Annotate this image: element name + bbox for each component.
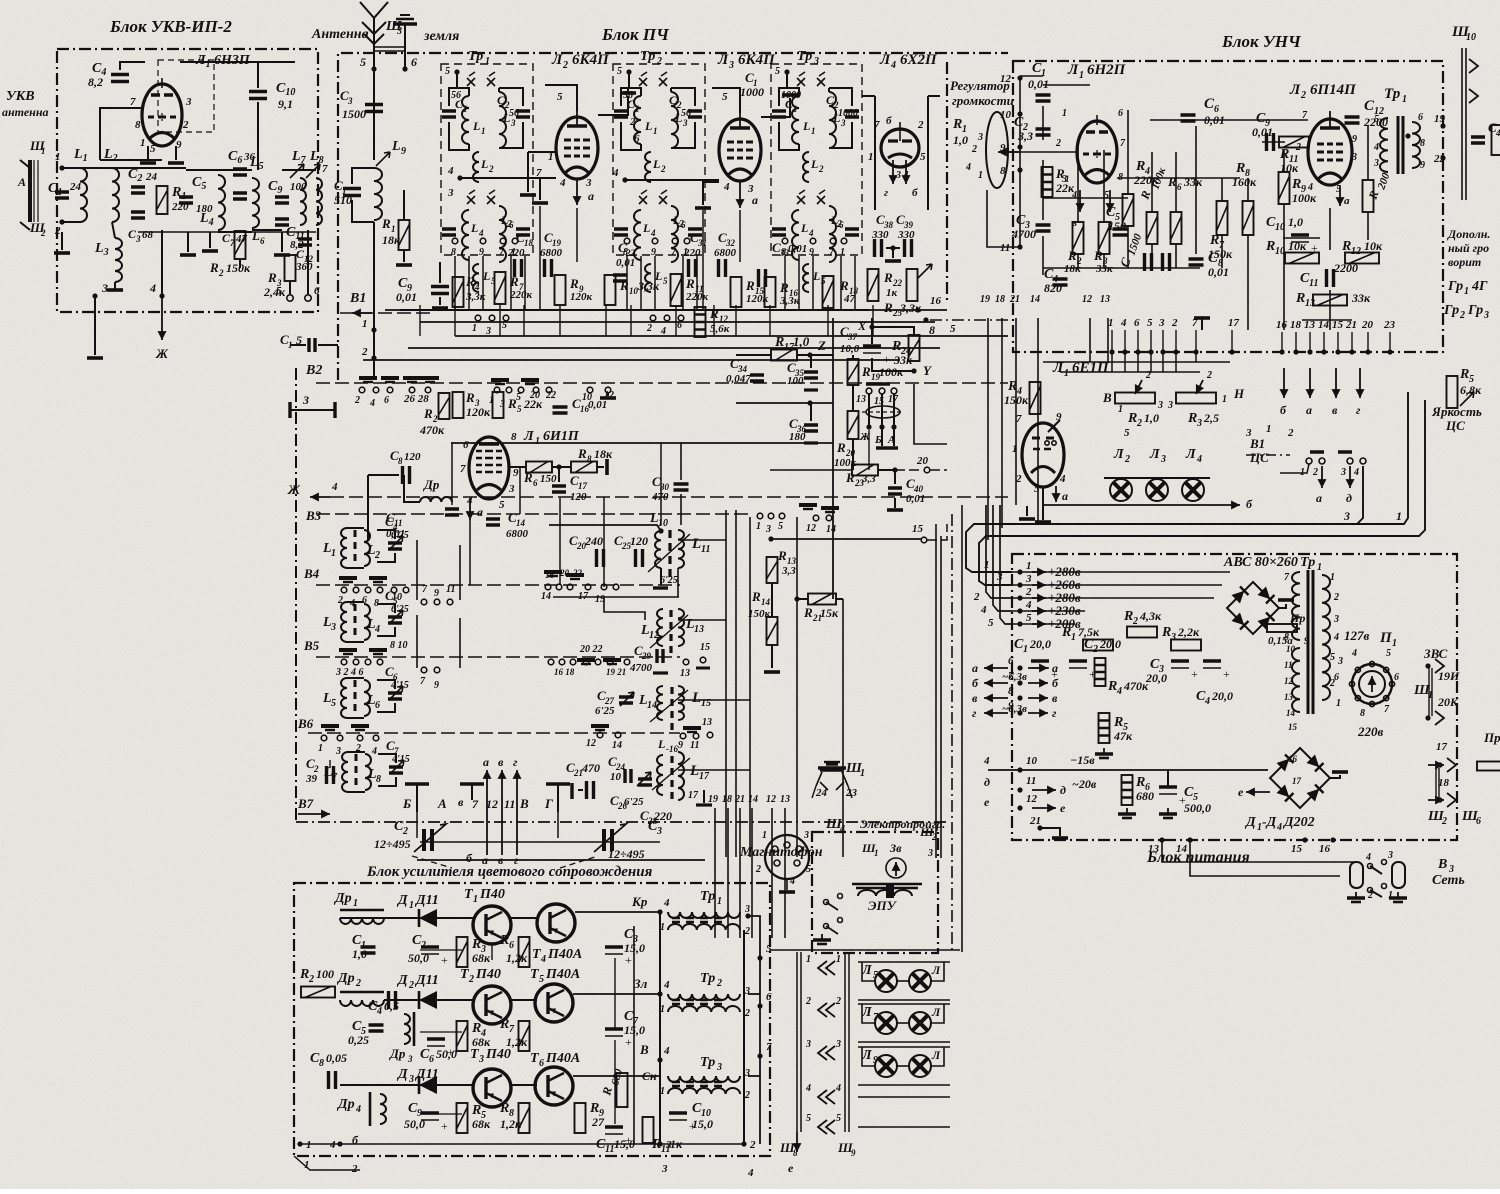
svg-text:4: 4 bbox=[376, 1006, 382, 1017]
B4 mid contacts bbox=[544, 570, 562, 574]
heater rails а б в г bbox=[984, 667, 1008, 669]
svg-text:3: 3 bbox=[977, 132, 983, 143]
osc coil L1 bbox=[341, 528, 347, 568]
capacitor C11 0,01 bbox=[445, 509, 459, 515]
capacitor C3 68 bbox=[131, 212, 145, 218]
svg-text:12÷495: 12÷495 bbox=[608, 847, 645, 861]
svg-text:д: д bbox=[1346, 491, 1352, 505]
svg-text:8: 8 bbox=[511, 431, 517, 443]
svg-text:R: R bbox=[1127, 411, 1137, 426]
svg-text:37: 37 bbox=[847, 332, 858, 342]
svg-text:14: 14 bbox=[1318, 319, 1330, 331]
power rect bbox=[1012, 554, 1457, 840]
svg-text:6: 6 bbox=[1008, 655, 1014, 667]
Тр3 trim marks lower bbox=[797, 190, 805, 204]
svg-text:в: в bbox=[972, 691, 978, 705]
svg-text:3 4: 3 4 bbox=[895, 170, 909, 181]
svg-text:г: г bbox=[514, 853, 519, 867]
svg-text:1: 1 bbox=[463, 104, 468, 114]
resistor R8 18к bbox=[571, 462, 597, 473]
capacitor C4 right bbox=[1471, 137, 1485, 143]
svg-text:150к: 150к bbox=[1208, 247, 1233, 261]
svg-text:0,01: 0,01 bbox=[788, 243, 807, 255]
svg-text:3: 3 bbox=[1373, 158, 1379, 169]
svg-text:В1: В1 bbox=[349, 291, 366, 306]
svg-text:R: R bbox=[1187, 411, 1197, 426]
svg-text:а: а bbox=[482, 853, 488, 867]
svg-text:13: 13 bbox=[1148, 843, 1160, 855]
capacitor C8 0,01 bbox=[1189, 259, 1204, 265]
pin continuation wires into 6Е1П bus bbox=[1111, 352, 1113, 372]
capacitor C1 510 bbox=[343, 189, 361, 196]
svg-text:R: R bbox=[1113, 715, 1123, 730]
svg-text:6: 6 bbox=[1118, 108, 1123, 119]
svg-text:3: 3 bbox=[747, 183, 754, 195]
capacitor C6 36 bbox=[233, 169, 247, 175]
svg-text:12: 12 bbox=[1082, 294, 1092, 305]
svg-text:антенна: антенна bbox=[2, 105, 49, 119]
capacitor C6 0,01 bbox=[1181, 115, 1196, 121]
svg-text:6: 6 bbox=[384, 395, 389, 406]
svg-text:Зл: Зл bbox=[633, 976, 648, 991]
svg-text:4: 4 bbox=[478, 228, 484, 238]
svg-text:2: 2 bbox=[1287, 427, 1294, 439]
transistor Т1 П40 bbox=[473, 906, 511, 944]
svg-text:3: 3 bbox=[1160, 454, 1166, 465]
svg-text:27: 27 bbox=[591, 1115, 605, 1129]
svg-text:12: 12 bbox=[1026, 793, 1038, 805]
svg-text:в: в bbox=[458, 795, 464, 809]
svg-text:5: 5 bbox=[1330, 652, 1335, 663]
svg-text:5: 5 bbox=[1124, 427, 1130, 439]
svg-text:68к: 68к bbox=[472, 951, 491, 965]
rail Ж bbox=[310, 496, 330, 498]
rail approach wire 1 bbox=[1017, 582, 1022, 587]
svg-text:0,05: 0,05 bbox=[326, 1051, 347, 1065]
wire grid left bbox=[100, 108, 142, 160]
transformer core bars Тр3 bbox=[672, 1082, 722, 1086]
svg-text:11: 11 bbox=[504, 797, 515, 811]
svg-text:2: 2 bbox=[818, 164, 824, 174]
svg-text:Тр: Тр bbox=[1300, 555, 1315, 570]
svg-text:820: 820 bbox=[1044, 281, 1062, 295]
wire top bus to node 8 bbox=[923, 317, 928, 322]
svg-text:2: 2 bbox=[374, 550, 380, 561]
svg-text:R: R bbox=[577, 446, 587, 461]
svg-text:2,5: 2,5 bbox=[1203, 411, 1219, 425]
svg-text:R: R bbox=[774, 335, 784, 350]
svg-text:б: б bbox=[972, 676, 979, 690]
svg-text:6: 6 bbox=[260, 236, 265, 246]
svg-text:13: 13 bbox=[694, 624, 704, 635]
svg-text:100к: 100к bbox=[879, 365, 904, 379]
capacitor C33 0,01 bbox=[759, 269, 766, 287]
svg-text:R: R bbox=[499, 1101, 509, 1116]
svg-text:В6: В6 bbox=[297, 716, 314, 731]
Тр3 coil L4 lower bbox=[792, 210, 799, 260]
wire Y down bbox=[914, 384, 947, 444]
svg-text:17: 17 bbox=[1436, 741, 1448, 753]
svg-text:15к: 15к bbox=[820, 606, 839, 620]
resistor R9 27 bbox=[575, 1103, 586, 1133]
antenna bbox=[373, 18, 375, 130]
svg-text:1: 1 bbox=[860, 768, 865, 779]
wire staircase under L10 bbox=[553, 596, 679, 598]
svg-text:Z: Z bbox=[817, 338, 826, 353]
wire 15 line bbox=[768, 536, 773, 541]
svg-text:земля: земля bbox=[423, 29, 459, 44]
coil L13 bbox=[678, 609, 684, 646]
svg-text:R: R bbox=[803, 605, 813, 620]
drop wires 12 13 bbox=[1089, 318, 1091, 362]
trim arrow L11 bbox=[648, 534, 690, 572]
resistor R18 47 bbox=[823, 276, 834, 308]
fuse holders bbox=[1350, 862, 1363, 888]
svg-text:Д11: Д11 bbox=[414, 893, 439, 908]
svg-text:12: 12 bbox=[1000, 73, 1012, 85]
capacitor C17 120 bbox=[552, 486, 566, 492]
svg-text:Сеть: Сеть bbox=[1432, 873, 1465, 888]
svg-text:б: б bbox=[466, 851, 473, 865]
resistor R21 15к bbox=[808, 594, 836, 605]
pot R3 2,5 bbox=[1176, 393, 1216, 404]
svg-text:1: 1 bbox=[1266, 423, 1272, 435]
svg-text:Блок УНЧ: Блок УНЧ bbox=[1221, 32, 1302, 51]
svg-text:0,5: 0,5 bbox=[384, 999, 399, 1013]
svg-text:20 22: 20 22 bbox=[579, 644, 603, 655]
block UKV border rect bbox=[57, 49, 318, 312]
svg-text:1к: 1к bbox=[886, 287, 898, 299]
svg-text:4: 4 bbox=[612, 167, 619, 179]
svg-text:180: 180 bbox=[789, 431, 806, 443]
svg-text:5: 5 bbox=[360, 55, 366, 69]
svg-text:20,0: 20,0 bbox=[1029, 637, 1051, 651]
svg-text:4: 4 bbox=[747, 1167, 754, 1179]
transistor Т3 П40 bbox=[473, 1069, 511, 1107]
svg-text:Тр: Тр bbox=[700, 971, 715, 986]
node 6 bbox=[305, 295, 311, 301]
capacitor C8 120 bbox=[403, 466, 410, 484]
capacitor C1 24 bbox=[55, 192, 69, 198]
svg-text:19 21: 19 21 bbox=[606, 667, 626, 677]
resistor R7 1,2к bbox=[519, 1021, 530, 1051]
svg-text:R: R bbox=[1459, 367, 1469, 382]
svg-text:12: 12 bbox=[766, 794, 776, 805]
svg-text:9: 9 bbox=[1352, 134, 1357, 145]
resistor R22 1к bbox=[868, 269, 879, 301]
svg-text:Пр: Пр bbox=[1483, 730, 1500, 745]
Тр1 secondary bbox=[1322, 575, 1330, 700]
wire R17 right bbox=[797, 354, 833, 356]
svg-text:1,0: 1,0 bbox=[953, 133, 968, 147]
svg-text:15,0: 15,0 bbox=[692, 1117, 713, 1131]
svg-text:4: 4 bbox=[559, 177, 566, 189]
transistor Т4 П40А bbox=[537, 904, 575, 942]
resistor R5 47к bbox=[1099, 713, 1110, 743]
svg-text:Тр: Тр bbox=[700, 1055, 715, 1070]
svg-text:10: 10 bbox=[1026, 755, 1038, 767]
svg-text:4: 4 bbox=[447, 165, 454, 177]
wire cathode down bbox=[1042, 487, 1044, 520]
svg-text:14: 14 bbox=[1286, 708, 1296, 718]
svg-text:4: 4 bbox=[723, 181, 730, 193]
svg-text:5: 5 bbox=[775, 66, 780, 77]
svg-text:7: 7 bbox=[766, 1041, 772, 1053]
resistor R5 100к rotated label bbox=[1147, 212, 1158, 244]
resistor right of Ш10 bbox=[1492, 125, 1500, 155]
selector contacts 10 12 bbox=[587, 387, 593, 393]
svg-text:3: 3 bbox=[1157, 400, 1163, 411]
svg-text:4: 4 bbox=[805, 1083, 811, 1094]
osc coil wires bbox=[347, 601, 364, 603]
svg-text:5: 5 bbox=[766, 943, 772, 955]
svg-text:8: 8 bbox=[1420, 138, 1425, 149]
phono switch contacts bbox=[824, 900, 829, 905]
svg-text:Л: Л bbox=[1185, 447, 1196, 462]
svg-text:2: 2 bbox=[656, 56, 662, 67]
svg-text:Тр: Тр bbox=[797, 49, 812, 64]
Ш8 Ш9 labels bbox=[796, 1132, 798, 1152]
svg-text:12: 12 bbox=[806, 523, 816, 534]
svg-text:13: 13 bbox=[1305, 298, 1315, 309]
svg-text:10: 10 bbox=[1000, 109, 1012, 121]
svg-text:4: 4 bbox=[374, 624, 380, 635]
tube Л3 6К4П bbox=[719, 119, 761, 181]
svg-text:1: 1 bbox=[409, 900, 414, 911]
svg-text:9: 9 bbox=[401, 146, 406, 157]
svg-text:510: 510 bbox=[334, 193, 352, 207]
svg-text:В: В bbox=[519, 796, 529, 811]
svg-text:б: б bbox=[886, 115, 892, 127]
svg-text:2: 2 bbox=[355, 978, 361, 989]
wire R17 left bbox=[736, 354, 771, 356]
svg-text:3,3: 3,3 bbox=[781, 565, 796, 577]
svg-text:П40А: П40А bbox=[545, 967, 580, 982]
IF transformer Тр3 box bbox=[771, 64, 862, 255]
color amp rect bbox=[294, 883, 770, 1156]
svg-text:2: 2 bbox=[973, 591, 980, 603]
svg-text:R: R bbox=[499, 933, 509, 948]
osc coil L8 bbox=[365, 754, 371, 790]
svg-text:5: 5 bbox=[331, 698, 336, 709]
resistor R8 1,2к bbox=[519, 1103, 530, 1133]
Тр2 bottom pin row bbox=[624, 238, 630, 244]
svg-text:220: 220 bbox=[507, 247, 525, 259]
resistor R6 1,2к bbox=[519, 937, 530, 967]
svg-text:120: 120 bbox=[404, 451, 421, 463]
svg-text:Гр: Гр bbox=[1447, 279, 1463, 294]
svg-text:L: L bbox=[391, 139, 401, 154]
svg-text:6И1П: 6И1П bbox=[543, 429, 580, 444]
svg-text:220в: 220в bbox=[1357, 724, 1384, 739]
svg-text:2: 2 bbox=[361, 346, 368, 358]
svg-text:1,2к: 1,2к bbox=[506, 951, 528, 965]
svg-text:0,01: 0,01 bbox=[1208, 265, 1229, 279]
B3 contacts 1 3 5 bbox=[757, 513, 763, 519]
svg-text:Ж: Ж bbox=[155, 346, 169, 361]
resistor R13 33к bbox=[1313, 295, 1347, 306]
resistor R20 100к bbox=[848, 411, 859, 439]
svg-text:2: 2 bbox=[1171, 317, 1178, 329]
resistor R3 68к bbox=[457, 937, 468, 967]
Тр1 primary top bbox=[1292, 572, 1300, 640]
svg-text:3 2 4 6: 3 2 4 6 bbox=[335, 667, 364, 678]
svg-text:6Н2П: 6Н2П bbox=[1087, 62, 1127, 78]
svg-text:50,0: 50,0 bbox=[404, 1117, 425, 1131]
svg-text:1: 1 bbox=[1222, 394, 1227, 405]
svg-text:18: 18 bbox=[995, 294, 1005, 305]
wire contact1 bbox=[1280, 464, 1309, 473]
bus under IF row bbox=[400, 309, 870, 311]
svg-text:1,0: 1,0 bbox=[1144, 411, 1159, 425]
resistor R1 22к bbox=[1042, 167, 1053, 197]
svg-text:15: 15 bbox=[912, 523, 924, 535]
svg-text:11: 11 bbox=[1284, 660, 1293, 670]
svg-text:3: 3 bbox=[1351, 152, 1357, 163]
svg-text:3: 3 bbox=[813, 56, 819, 67]
wire joints from selector bbox=[868, 430, 870, 470]
wire g1 left bbox=[528, 151, 556, 153]
svg-text:2: 2 bbox=[182, 119, 189, 131]
svg-text:В3: В3 bbox=[305, 508, 322, 523]
svg-text:Гр: Гр bbox=[1467, 303, 1483, 318]
svg-text:4: 4 bbox=[1116, 686, 1122, 697]
capacitor C2 3,3 bbox=[1036, 129, 1051, 135]
B6 mid contacts bbox=[591, 724, 609, 728]
svg-text:14: 14 bbox=[516, 518, 526, 528]
node 5 right bbox=[757, 955, 762, 960]
svg-text:2: 2 bbox=[1312, 467, 1318, 478]
wires R3 bbox=[289, 281, 291, 294]
svg-text:R: R bbox=[569, 276, 579, 291]
svg-text:а: а bbox=[1306, 403, 1312, 417]
Тр3 coil L6 lower right bbox=[829, 206, 836, 262]
svg-text:Г: Г bbox=[544, 796, 553, 811]
svg-text:150к: 150к bbox=[226, 261, 251, 275]
capacitor C2 39 bbox=[327, 766, 334, 784]
svg-text:16: 16 bbox=[930, 295, 942, 307]
svg-text:68к: 68к bbox=[472, 1117, 491, 1131]
svg-text:1: 1 bbox=[1026, 560, 1032, 572]
svg-text:7,5к: 7,5к bbox=[1078, 625, 1100, 639]
wires net switch bbox=[1162, 840, 1356, 862]
node 5 antenna bbox=[371, 66, 376, 71]
svg-text:Яркость: Яркость bbox=[1431, 404, 1482, 419]
svg-text:13: 13 bbox=[702, 717, 712, 728]
svg-text:21: 21 bbox=[734, 794, 745, 805]
capacitor C5 0,25 bbox=[369, 1025, 384, 1031]
svg-text:R: R bbox=[861, 364, 871, 379]
svg-text:6800: 6800 bbox=[714, 247, 737, 259]
svg-text:Блок усилителя цветового сопро: Блок усилителя цветового сопровождения bbox=[366, 864, 653, 880]
svg-text:-Д: -Д bbox=[1262, 815, 1277, 830]
svg-text:2: 2 bbox=[308, 974, 314, 985]
svg-text:14: 14 bbox=[1030, 294, 1040, 305]
svg-text:7: 7 bbox=[460, 463, 466, 475]
svg-text:1: 1 bbox=[362, 318, 368, 330]
node 1 bbox=[371, 327, 376, 332]
svg-text:0,01: 0,01 bbox=[1252, 125, 1273, 139]
svg-text:6П14П: 6П14П bbox=[1310, 82, 1357, 98]
svg-text:а: а bbox=[1062, 489, 1068, 503]
svg-text:100: 100 bbox=[316, 967, 334, 981]
svg-text:0,01: 0,01 bbox=[906, 493, 925, 505]
transformer core bars Тр2 bbox=[672, 1000, 722, 1004]
svg-text:9: 9 bbox=[434, 680, 439, 691]
resistor R4 470к bbox=[1095, 658, 1106, 686]
svg-text:1: 1 bbox=[1402, 94, 1407, 105]
svg-text:В: В bbox=[1102, 390, 1112, 405]
svg-text:1: 1 bbox=[331, 548, 336, 559]
transformer core bars Тр1 bbox=[672, 918, 722, 922]
svg-text:+: + bbox=[883, 352, 890, 366]
svg-text:Тр: Тр bbox=[468, 49, 483, 64]
svg-text:6: 6 bbox=[375, 700, 380, 711]
osc trimmer cap C6 4'15 bbox=[388, 693, 402, 699]
vertical arrows а в г bbox=[486, 770, 488, 855]
svg-text:г: г bbox=[513, 755, 518, 769]
svg-text:12: 12 bbox=[1351, 246, 1361, 257]
svg-text:2: 2 bbox=[1055, 138, 1061, 149]
svg-text:R: R bbox=[836, 440, 846, 455]
svg-text:10: 10 bbox=[1466, 32, 1476, 43]
wires color amp bbox=[300, 1143, 744, 1145]
svg-text:11: 11 bbox=[701, 544, 710, 555]
nested rounded bus wire 1 bbox=[966, 392, 1408, 572]
coil L1 bbox=[80, 168, 87, 222]
Тр3 coil L5 bottom bbox=[803, 264, 809, 292]
svg-text:R: R bbox=[1107, 679, 1117, 694]
resistor R9 120к bbox=[555, 275, 566, 305]
wire C8 left bbox=[368, 474, 399, 476]
base bias wires bbox=[420, 949, 462, 951]
capacitor C1 0,01 bbox=[1036, 95, 1051, 101]
svg-text:1: 1 bbox=[653, 126, 658, 136]
svg-text:1: 1 bbox=[811, 126, 816, 136]
power rails numbers bbox=[1017, 569, 1022, 574]
svg-text:R: R bbox=[381, 216, 391, 231]
Тр1 trim marks lower bbox=[467, 190, 475, 204]
svg-text:2: 2 bbox=[1092, 644, 1098, 655]
svg-text:18: 18 bbox=[1290, 319, 1302, 331]
svg-text:14: 14 bbox=[647, 700, 657, 711]
svg-text:Тр: Тр bbox=[640, 49, 655, 64]
svg-text:3: 3 bbox=[1245, 427, 1252, 439]
vertical wires 19 18 21 14 12 13 columns bbox=[714, 808, 716, 938]
svg-text:4: 4 bbox=[965, 162, 971, 173]
svg-text:1: 1 bbox=[535, 436, 540, 447]
svg-text:Л: Л bbox=[879, 52, 891, 68]
svg-text:1500: 1500 bbox=[342, 107, 366, 121]
Тр1 coil L6 lower right bbox=[499, 206, 506, 262]
svg-text:5: 5 bbox=[150, 143, 156, 155]
svg-text:3: 3 bbox=[135, 234, 141, 244]
svg-text:R: R bbox=[685, 276, 695, 291]
svg-text:R: R bbox=[883, 270, 893, 285]
Тр1 capacitor С1 56 upper left bbox=[442, 111, 456, 117]
svg-text:5: 5 bbox=[445, 66, 450, 77]
svg-text:18к: 18к bbox=[594, 447, 613, 461]
svg-text:2: 2 bbox=[420, 940, 426, 951]
svg-text:24: 24 bbox=[145, 171, 158, 183]
svg-text:В4: В4 bbox=[303, 566, 320, 581]
svg-text:3: 3 bbox=[661, 1163, 668, 1175]
svg-text:12: 12 bbox=[1284, 676, 1294, 686]
capacitor C4 0,5 bbox=[389, 991, 396, 1009]
svg-text:Зв: Зв bbox=[889, 841, 902, 855]
svg-text:3: 3 bbox=[347, 96, 353, 106]
svg-text:5: 5 bbox=[806, 864, 811, 875]
